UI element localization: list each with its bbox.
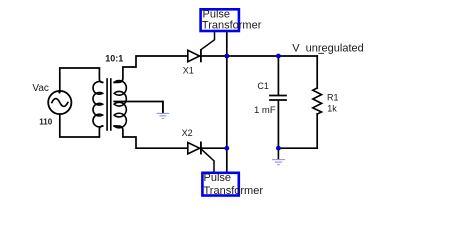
svg-text:Transformer: Transformer [204,185,264,197]
svg-text:C1: C1 [257,81,269,91]
svg-text:Pulse: Pulse [204,172,232,184]
svg-text:110: 110 [39,118,52,127]
svg-text:10:1: 10:1 [105,54,123,64]
svg-text:Vac: Vac [32,83,49,94]
svg-text:1k: 1k [327,104,337,114]
svg-text:R1: R1 [327,93,339,103]
svg-text:V unregulated: V unregulated [292,43,364,55]
svg-text:X1: X1 [183,66,194,76]
svg-text:X2: X2 [182,128,193,138]
svg-text:1 mF: 1 mF [254,105,276,116]
svg-text:Transformer: Transformer [202,20,262,32]
